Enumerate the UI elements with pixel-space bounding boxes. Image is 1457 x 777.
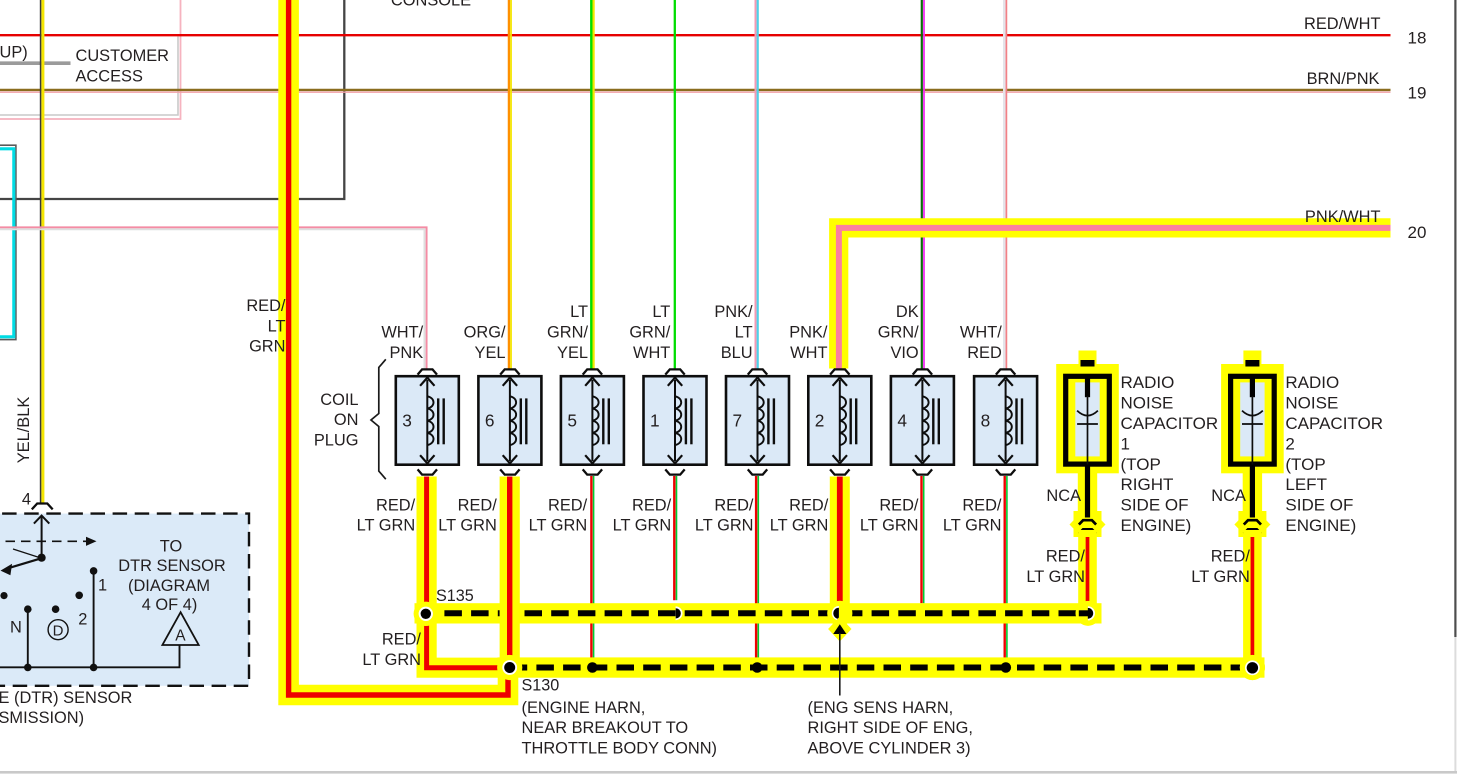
coil on plug 5 (box) (561, 376, 624, 465)
wire RED/LT GRN below coil 7 (red strand) (755, 476, 757, 668)
svg-text:YEL: YEL (475, 344, 506, 362)
svg-text:CAPACITOR: CAPACITOR (1121, 414, 1219, 433)
svg-text:RED/: RED/ (458, 496, 498, 514)
splice bus S135 (black dashed wire) (426, 610, 1083, 616)
DTR sensor box (dashed) (0, 514, 249, 686)
svg-text:LT: LT (268, 317, 286, 335)
wire RED/LT GRN main feed highlighted (yellow highlight) (289, 0, 508, 695)
wire RED/LT GRN main feed (red core) (289, 0, 508, 695)
wire WHT/RED to coil 8 (1003, 0, 1006, 369)
svg-text:LT GRN: LT GRN (529, 517, 588, 535)
splice S130 left end junction (yellow ring) (497, 655, 522, 680)
coil on plug 4 (connector bottom) (913, 469, 932, 474)
svg-text:RED/: RED/ (789, 496, 829, 514)
splice S130 left end junction (white halo) (502, 660, 517, 675)
splice S135 right end junction redraw (white halo) (1088, 606, 1095, 620)
dark gray harness outline (corner at 344,199) (0, 0, 344, 199)
junction dot on DTR bus (1) (90, 664, 98, 672)
svg-text:N: N (10, 619, 22, 637)
svg-text:RED/: RED/ (548, 496, 588, 514)
coil on plug 4 (connector top) (913, 369, 932, 374)
wire RED/LT GRN below coil 4 (red strand) (920, 476, 922, 603)
coil on plug 6 (winding symbol) (503, 378, 527, 464)
coil on plug 6 (box) (478, 376, 541, 465)
splice S130 left end junction (black dot) (504, 662, 515, 673)
svg-text:RED/: RED/ (962, 496, 1002, 514)
svg-text:5: 5 (567, 411, 577, 431)
splice S135 left end junction (black dot) (421, 609, 431, 619)
svg-text:LT: LT (570, 303, 588, 321)
coil on plug 4 (box) (891, 376, 954, 465)
svg-text:PNK/: PNK/ (714, 303, 753, 321)
wire RED/LT GRN below coil 1 (green strand) (676, 476, 678, 600)
wire RED/LT GRN below coil 8 (green strand) (1006, 476, 1008, 668)
svg-text:LT GRN: LT GRN (362, 651, 421, 669)
wire from position 1 (93, 574, 95, 667)
svg-text:RIGHT: RIGHT (1121, 475, 1174, 494)
coil on plug 1 (connector top) (665, 369, 684, 374)
DTR switch arm diagonal (13, 549, 42, 558)
junction coil 8 wire at S130 (black dot) (1001, 662, 1012, 673)
svg-text:ACCESS: ACCESS (76, 68, 143, 86)
wire DK GRN/VIO to coil 4 (dark green strand) (921, 0, 923, 369)
svg-text:RED/: RED/ (376, 496, 416, 514)
junction coil 5 wire at S130 (black dot) (587, 662, 598, 673)
svg-text:1: 1 (98, 576, 107, 594)
svg-text:RED: RED (967, 344, 1002, 362)
wire PNK/LT BLU to coil 7 (light blue strand) (757, 0, 759, 369)
splice bus S135 (yellow highlight band) (415, 603, 1102, 623)
DTR dashed travel arrow (0, 540, 86, 542)
svg-text:UP): UP) (0, 44, 28, 62)
splice S130 right end junction redraw (yellow ring) (1240, 655, 1265, 680)
junction coil 2 wire at S135 (half dot) (833, 608, 839, 619)
wire RED/LT GRN below coil 2 (red core) (837, 477, 843, 611)
svg-text:RADIO: RADIO (1121, 373, 1175, 392)
coil on plug 3 (connector bottom) (418, 469, 437, 474)
svg-text:(TOP: (TOP (1285, 455, 1325, 474)
coil on plug 7 (connector bottom) (748, 469, 767, 474)
wire RED/LT GRN from capacitor 1 (yellow highlight) (1078, 530, 1097, 611)
svg-text:THROTTLE BODY CONN): THROTTLE BODY CONN) (522, 740, 718, 758)
svg-text:WHT: WHT (633, 344, 670, 362)
svg-text:GRN/: GRN/ (629, 324, 670, 342)
svg-text:LT GRN: LT GRN (770, 517, 829, 535)
svg-text:1: 1 (1121, 434, 1130, 453)
wire LT GRN/WHT to coil 1 (674, 0, 676, 369)
svg-text:TO: TO (160, 537, 182, 555)
coil on plug 7 (connector top) (748, 369, 767, 374)
svg-text:LT: LT (652, 303, 670, 321)
svg-text:WHT: WHT (790, 344, 827, 362)
svg-text:LT GRN: LT GRN (1026, 568, 1085, 586)
svg-text:NOISE: NOISE (1285, 394, 1338, 413)
svg-text:LT GRN: LT GRN (695, 517, 754, 535)
splice S135 right end junction (half dot) (1088, 608, 1093, 619)
wire RED/LT GRN below coil 3 highlighted (yellow highlight) (427, 477, 509, 668)
svg-text:6: 6 (485, 411, 495, 431)
svg-text:RIGHT SIDE OF ENG,: RIGHT SIDE OF ENG, (808, 719, 973, 737)
svg-text:NCA: NCA (1046, 487, 1081, 505)
svg-text:BRN/PNK: BRN/PNK (1307, 70, 1380, 88)
svg-text:7: 7 (733, 411, 743, 431)
page border right (light) (1454, 637, 1456, 772)
wire RED/LT GRN below coil 8 (red strand) (1004, 476, 1006, 668)
radio noise capacitor 2 (terminal stub) (1245, 360, 1259, 367)
coil on plug 3 (winding symbol) (420, 378, 444, 464)
coil on plug 2 (winding symbol) (833, 378, 857, 464)
svg-text:PLUG: PLUG (314, 431, 359, 449)
inline connector below capacitor 2 (1244, 520, 1261, 524)
radio noise capacitor 1 (terminal stub) (1081, 360, 1095, 367)
wire PNK/WHT circuit 20 highlighted (yellow highlight) (839, 228, 1391, 369)
svg-text:ORG/: ORG/ (464, 324, 506, 342)
svg-text:4 OF 4): 4 OF 4) (142, 596, 198, 614)
svg-text:LT GRN: LT GRN (438, 517, 497, 535)
svg-text:CUSTOMER: CUSTOMER (76, 47, 170, 65)
svg-text:DK: DK (896, 303, 919, 321)
svg-text:CONSOLE: CONSOLE (391, 0, 471, 10)
radio noise capacitor 1 (yellow highlight) (1056, 351, 1119, 544)
wire RED/LT GRN below coil 6 (red core) (507, 477, 512, 668)
wire RED/LT GRN below coil 3 (red core) (427, 477, 509, 668)
svg-text:SIDE OF: SIDE OF (1121, 496, 1189, 515)
junction dot on DTR bus (N) (24, 664, 32, 672)
callout arrowhead highlight (yellow) (828, 617, 851, 642)
wire RED/LT GRN from capacitor 2 (yellow highlight) (1243, 530, 1262, 664)
junction coil 2 wire at S135 (white halo) (832, 606, 839, 620)
wire DK GRN/VIO to coil 4 (violet strand) (923, 0, 925, 369)
splice S135 right end junction (yellow ring) (1076, 601, 1101, 626)
wire NCA from capacitor 1 (black) (1085, 467, 1090, 518)
svg-text:RED/: RED/ (632, 496, 672, 514)
svg-text:RADIO: RADIO (1285, 373, 1339, 392)
wire LT GRN/YEL to coil 5 (yellow strand) (592, 0, 594, 369)
splice S135 right end junction redraw (half dot) (1088, 608, 1093, 619)
svg-text:(TOP: (TOP (1121, 455, 1161, 474)
wire PNK/WHT circuit 20 (pink core) (839, 228, 1391, 369)
splice bus S130 (yellow highlight band) (498, 657, 1265, 677)
coil on plug 8 (connector top) (996, 369, 1015, 374)
wire RED/LT GRN below coil 4 (green strand) (923, 476, 925, 603)
coil on plug 7 (winding symbol) (750, 378, 774, 464)
radio noise capacitor 1 (capacitor symbol) (1085, 374, 1090, 397)
svg-text:WHT/: WHT/ (960, 324, 1002, 342)
svg-text:19: 19 (1408, 84, 1427, 103)
page border bottom (light) (0, 771, 1457, 774)
svg-text:LT GRN: LT GRN (860, 517, 919, 535)
svg-text:NCA: NCA (1211, 487, 1246, 505)
svg-text:RED/: RED/ (714, 496, 754, 514)
splice S135 left end junction (white halo) (419, 607, 433, 621)
splice bus S130 (black dashed wire) (510, 665, 1253, 671)
svg-text:(ENGINE HARN,: (ENGINE HARN, (522, 699, 646, 717)
svg-text:GRN/: GRN/ (547, 324, 588, 342)
connector box (pink outline, top-left) (0, 0, 181, 119)
svg-text:BLU: BLU (721, 344, 753, 362)
svg-text:3: 3 (402, 411, 412, 431)
svg-text:DTR SENSOR: DTR SENSOR (118, 557, 226, 575)
svg-text:CAPACITOR: CAPACITOR (1285, 414, 1383, 433)
junction coil 7 wire at S130 (black dot) (752, 662, 763, 673)
wire YEL/BLK (yellow strand) (41, 0, 44, 503)
wire RED/LT GRN below coil 5 (green strand) (593, 476, 595, 668)
svg-text:1: 1 (650, 411, 660, 431)
radio noise capacitor 2 (capacitor symbol) (1250, 374, 1255, 397)
coil on plug 3 (connector top) (418, 369, 437, 374)
svg-text:A: A (175, 627, 186, 644)
DTR switch pivot dot (38, 554, 46, 562)
splice S135 right end junction (white halo) (1088, 606, 1095, 620)
wire RED/LT GRN below coil 6 highlighted (yellow highlight) (500, 477, 520, 668)
customer access leader line (grey) (0, 61, 71, 65)
svg-text:NEAR BREAKOUT TO: NEAR BREAKOUT TO (522, 719, 689, 737)
svg-text:ENGINE): ENGINE) (1121, 516, 1192, 535)
coil on plug 3 (box) (396, 376, 459, 465)
svg-text:SIDE OF: SIDE OF (1285, 496, 1353, 515)
svg-text:(ENG SENS HARN,: (ENG SENS HARN, (808, 699, 954, 717)
wire RED/LT GRN from capacitor 1 (red core) (1086, 537, 1090, 609)
svg-text:RED/WHT: RED/WHT (1304, 15, 1380, 33)
splice S135 left end junction (yellow ring) (414, 602, 438, 626)
DTR switch arm (vertical with up arrow) (41, 517, 43, 558)
radio noise capacitor 1 (box) (1066, 376, 1110, 464)
coil on plug 2 (box) (808, 376, 871, 465)
page border right (dark) (1454, 0, 1456, 637)
callout arrowhead to S135/coil2 junction (833, 624, 846, 634)
svg-text:4: 4 (22, 490, 31, 508)
svg-text:LT GRN: LT GRN (943, 517, 1002, 535)
cyan component box (0, 149, 14, 337)
radio noise capacitor 2 (box) (1231, 376, 1275, 464)
wire RED/LT GRN below coil 1 (red strand) (673, 476, 675, 600)
splice S135 right end junction (dash stub) (1079, 610, 1089, 616)
wire RED/LT GRN below coil 5 (red strand) (590, 476, 592, 668)
svg-text:NOISE: NOISE (1121, 394, 1174, 413)
wire YEL/BLK (black strand) (40, 0, 42, 503)
coil on plug 8 (connector bottom) (996, 469, 1015, 474)
svg-text:YEL: YEL (557, 344, 588, 362)
splice S135 right end junction redraw (dash stub) (1079, 610, 1089, 616)
coil on plug 5 (winding symbol) (585, 378, 609, 464)
svg-text:LT GRN: LT GRN (613, 517, 672, 535)
svg-text:LT GRN: LT GRN (357, 517, 416, 535)
svg-text:SMISSION): SMISSION) (0, 709, 84, 727)
svg-text:LT: LT (735, 324, 753, 342)
label RADIO NOISE CAPACITOR 1 (1121, 373, 1219, 535)
svg-text:2: 2 (78, 610, 87, 628)
svg-text:RED/: RED/ (382, 631, 422, 649)
wire from position N (27, 612, 29, 667)
svg-text:S130: S130 (522, 677, 560, 695)
svg-text:LT GRN: LT GRN (1191, 568, 1250, 586)
wire RED/LT GRN below coil 2 highlighted (yellow highlight) (830, 477, 850, 614)
wire RED/WHT circuit 18 (0, 34, 1391, 36)
inline connector at DTR box top (32, 504, 53, 510)
svg-text:ABOVE CYLINDER 3): ABOVE CYLINDER 3) (808, 740, 971, 758)
svg-text:LEFT: LEFT (1285, 475, 1327, 494)
radio noise capacitor 2 (yellow highlight) (1221, 351, 1284, 544)
DTR internal bus wire (0, 645, 180, 668)
svg-text:ON: ON (334, 411, 359, 429)
wire RED/LT GRN below coil 7 (green strand) (757, 476, 759, 668)
coil on plug 5 (connector bottom) (583, 469, 602, 474)
svg-text:VIO: VIO (890, 344, 918, 362)
svg-text:GRN/: GRN/ (878, 324, 919, 342)
coil on plug 8 (box) (974, 376, 1037, 465)
wire NCA from capacitor 2 (black) (1250, 467, 1255, 518)
grey outline around cyan box (0, 145, 16, 339)
splice S135 right end junction redraw (yellow ring) (1076, 601, 1101, 626)
splice S130 right end junction (yellow ring) (1240, 655, 1265, 680)
svg-text:PNK/WHT: PNK/WHT (1305, 208, 1381, 226)
off-page reference triangle A (162, 612, 198, 645)
coil on plug 1 (winding symbol) (668, 378, 692, 464)
callout leader line (ENG SENS HARN) (839, 633, 841, 696)
svg-text:4: 4 (897, 411, 907, 431)
wire RED/LT GRN from capacitor 2 (red core) (1251, 537, 1255, 662)
wire ORG/YEL to coil 6 (yellow strand) (510, 0, 512, 369)
svg-text:COIL: COIL (320, 391, 358, 409)
wire ORG/YEL to coil 6 (orange strand) (508, 0, 510, 369)
connector box (grey outline, top-left) (0, 37, 178, 116)
label RADIO NOISE CAPACITOR 2 (1285, 373, 1383, 535)
wire WHT/PNK to coil 3 (white strand) (0, 229, 425, 368)
coil on plug 4 (winding symbol) (915, 378, 939, 464)
coil on plug 2 (connector top) (830, 369, 849, 374)
inline connector below capacitor 1 (1079, 520, 1096, 524)
svg-text:20: 20 (1408, 223, 1427, 242)
wire PNK/LT BLU to coil 7 (pink strand) (755, 0, 757, 369)
svg-text:18: 18 (1408, 29, 1427, 48)
svg-text:(DIAGRAM: (DIAGRAM (128, 577, 210, 595)
wire BRN/PNK circuit 19 (brown strand) (0, 89, 1391, 91)
splice S130 right end junction redraw (black dot) (1247, 662, 1258, 673)
svg-text:RED/: RED/ (1211, 548, 1251, 566)
circled D (drive position) (48, 620, 68, 640)
svg-text:RED/: RED/ (879, 496, 919, 514)
splice S130 right end junction (black dot) (1247, 662, 1258, 673)
junction coil 1 wire at S135 (half dot) (676, 608, 681, 618)
svg-text:8: 8 (981, 411, 991, 431)
coil on plug 6 (connector top) (500, 369, 519, 374)
svg-text:YEL/BLK: YEL/BLK (15, 397, 33, 464)
svg-text:GRN: GRN (249, 338, 285, 356)
svg-text:PNK/: PNK/ (789, 324, 828, 342)
brace for COIL ON PLUG (371, 359, 386, 479)
coil on plug 8 (winding symbol) (998, 378, 1022, 464)
coil on plug 2 (connector bottom) (830, 469, 849, 474)
coil on plug 1 (connector bottom) (665, 469, 684, 474)
wire WHT/PNK to coil 3 (pink strand) (0, 227, 427, 368)
coil on plug 6 (connector bottom) (500, 469, 519, 474)
junction coil 2 wire at S135 (yellow ring) (827, 601, 852, 626)
svg-text:ENGINE): ENGINE) (1285, 516, 1356, 535)
svg-text:E (DTR) SENSOR: E (DTR) SENSOR (0, 689, 133, 707)
DTR position contact dots (0, 592, 7, 599)
svg-text:D: D (53, 622, 64, 639)
coil on plug 5 (connector top) (583, 369, 602, 374)
splice S130 right end junction redraw (white halo) (1245, 660, 1260, 675)
wire BRN/PNK circuit 19 (pink strand) (0, 91, 1391, 93)
svg-text:S135: S135 (436, 587, 474, 605)
svg-text:2: 2 (1285, 434, 1294, 453)
svg-text:PNK: PNK (389, 344, 423, 362)
coil on plug 1 (box) (644, 376, 707, 465)
svg-text:WHT/: WHT/ (381, 324, 423, 342)
svg-text:RED/: RED/ (1046, 548, 1086, 566)
coil on plug 7 (box) (726, 376, 789, 465)
junction coil 1 wire at S135 (white halo) (676, 606, 683, 620)
svg-text:RED/: RED/ (246, 297, 286, 315)
wire LT GRN/YEL to coil 5 (green strand) (590, 0, 592, 369)
svg-text:2: 2 (815, 411, 825, 431)
